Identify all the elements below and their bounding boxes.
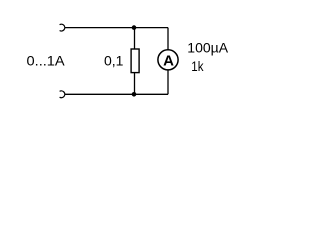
node junction top [132, 25, 137, 30]
terminal X2 (bottom input socket) [60, 91, 65, 98]
ammeter M1 circle [158, 50, 178, 70]
svg-text:0,1: 0,1 [104, 53, 124, 69]
svg-text:1k: 1k [191, 58, 204, 74]
wire ammeter bottom lead [167, 70, 169, 95]
node junction bottom [132, 92, 137, 97]
terminal X1 (top input socket) [60, 24, 65, 31]
wire bottom horizontal [65, 93, 168, 95]
resistor R1 value 0,1 [131, 49, 139, 73]
wire resistor top lead [134, 28, 136, 49]
svg-text:A: A [163, 53, 174, 70]
svg-text:100µA: 100µA [187, 39, 228, 55]
wire top horizontal [65, 27, 168, 29]
svg-text:0...1A: 0...1A [27, 53, 66, 69]
wire ammeter top lead [167, 28, 169, 50]
wire resistor bottom lead [134, 73, 136, 95]
